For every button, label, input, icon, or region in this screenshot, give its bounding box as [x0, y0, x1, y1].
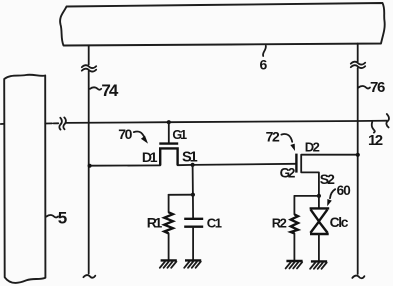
node dot at S2 branch — [317, 194, 321, 198]
bottom break squiggle on line 76 — [352, 276, 364, 279]
label 76 leader tilde — [359, 86, 371, 88]
svg-text:S2: S2 — [320, 171, 335, 187]
svg-text:G1: G1 — [172, 128, 187, 142]
node S1 dot — [191, 163, 195, 167]
label 6 leader — [263, 46, 266, 56]
svg-text:74: 74 — [101, 81, 118, 100]
transistor 70 gate lead — [168, 122, 170, 143]
break symbol on row wire — [59, 117, 66, 129]
Clc lower triangle — [310, 222, 327, 233]
svg-text:Clc: Clc — [330, 215, 349, 230]
svg-text:S1: S1 — [182, 150, 198, 166]
Clc upper triangle — [311, 210, 328, 222]
row wire end squiggle — [386, 114, 389, 127]
label 74 leader tilde — [90, 87, 101, 89]
label 60 arrow — [330, 189, 335, 198]
ground under C1 — [184, 260, 201, 267]
svg-text:12: 12 — [368, 132, 383, 149]
svg-text:5: 5 — [58, 208, 67, 227]
transistor 72 gate bar — [295, 154, 297, 173]
break symbol on line 76 — [351, 62, 365, 68]
svg-text:72: 72 — [266, 129, 280, 145]
branch wire to R1 — [169, 194, 193, 196]
label 70 arrow — [134, 132, 144, 137]
resistor R1 — [168, 195, 170, 213]
wire S1 (to gate of transistor 72) — [178, 164, 296, 165]
Clc bottom plate — [310, 233, 329, 235]
svg-text:G2: G2 — [280, 166, 295, 181]
row wire 12 (horizontal gate line) — [45, 121, 386, 124]
node dot at data line 76 / D2 — [356, 153, 360, 157]
label 72 arrow — [281, 134, 292, 142]
capacitor C1 — [192, 195, 194, 218]
svg-text:70: 70 — [118, 126, 132, 142]
branch wire to R2 — [294, 195, 319, 197]
transistor 72 channel (staple) + D2 wire + S2 lead — [301, 155, 358, 196]
wire S1 drop to storage node — [192, 165, 194, 195]
node dot storage — [191, 193, 195, 197]
left bar 5 (vertical bar) — [4, 75, 45, 283]
svg-text:D2: D2 — [305, 140, 320, 155]
svg-text:76: 76 — [370, 79, 385, 96]
transistor 70 channel (staple) — [160, 148, 177, 165]
bottom break squiggle on line 74 — [83, 275, 95, 278]
wire D1 (to data line 74) — [90, 164, 161, 166]
transistor 70 gate bar — [159, 142, 178, 144]
ground under R1 — [160, 260, 177, 267]
label 12 leader — [372, 122, 375, 133]
bus bar 6 (top horizontal bar) — [60, 3, 385, 46]
svg-text:6: 6 — [260, 57, 268, 73]
label 5 leader tilde — [47, 215, 59, 217]
svg-text:C1: C1 — [207, 215, 222, 230]
svg-text:60: 60 — [337, 183, 351, 198]
data line 76 (right vertical wire) — [357, 44, 359, 275]
ground under R2 — [286, 261, 303, 268]
Clc top plate — [310, 207, 330, 209]
ground under Clc — [310, 261, 327, 268]
data line 74 (left vertical wire) — [88, 46, 90, 274]
row wire stub left of bar 5 — [1, 123, 4, 125]
svg-text:R2: R2 — [272, 215, 287, 230]
node dot at data line 74 / D1 — [88, 164, 92, 168]
break symbol on line 74 — [82, 65, 96, 71]
resistor R2 — [293, 196, 295, 215]
liquid-crystal capacitor Clc (element 60) — [318, 196, 320, 208]
transistor 70 : gate lead node dot — [167, 120, 171, 124]
